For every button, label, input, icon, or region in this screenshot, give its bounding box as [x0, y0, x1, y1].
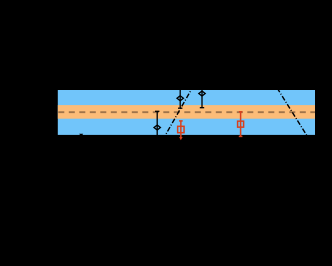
- blue band (1-sigma region): [58, 90, 315, 135]
- right dash-dot model line: [272, 80, 309, 139]
- red arrow head R1: [179, 137, 183, 140]
- red errorbar point R1 (with lower arrow): [178, 121, 184, 137]
- black errorbar point G2: [177, 88, 183, 108]
- black upper-limit caret G4: [79, 134, 83, 137]
- black errorbar point G1: [154, 111, 160, 144]
- orange dashed center line: [58, 111, 315, 113]
- red errorbar point R2: [238, 112, 244, 137]
- left dash-dot model line: [158, 81, 196, 148]
- orange band (best-fit region): [58, 105, 315, 119]
- black errorbar point G3: [199, 79, 205, 107]
